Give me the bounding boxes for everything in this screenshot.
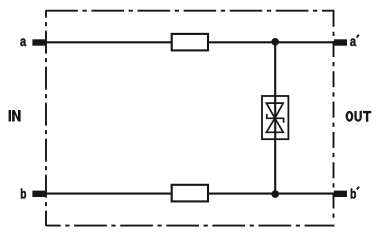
svg-text:b: b <box>20 186 26 202</box>
svg-text:b: b <box>350 186 357 202</box>
label OUT <box>347 111 372 122</box>
terminal a' (right) <box>334 39 347 45</box>
terminal b' (right) <box>334 191 347 197</box>
label IN <box>9 110 21 122</box>
resistor (series, line a) <box>172 34 208 51</box>
terminal b (left) <box>32 191 46 197</box>
svg-text:a: a <box>20 34 26 50</box>
node (junction on line b) <box>271 190 279 198</box>
suppressor diode (bidirectional TVS) box <box>262 96 288 139</box>
wire b (left segment) <box>44 193 172 195</box>
wire (vertical branch to suppressor diode) <box>274 42 276 193</box>
wire a (left segment) <box>44 41 172 43</box>
wire a (right segment) <box>208 41 335 43</box>
enclosure dash-dot border <box>45 11 334 226</box>
suppressor diode zener crossbar <box>267 114 284 123</box>
wire b (right segment) <box>208 193 335 195</box>
resistor (series, line b) <box>172 185 208 202</box>
suppressor diode lower triangle <box>266 118 283 132</box>
svg-text:a: a <box>350 34 356 50</box>
node (junction on line a) <box>271 38 279 46</box>
suppressor diode upper triangle <box>266 103 283 118</box>
terminal a (left) <box>32 39 46 45</box>
